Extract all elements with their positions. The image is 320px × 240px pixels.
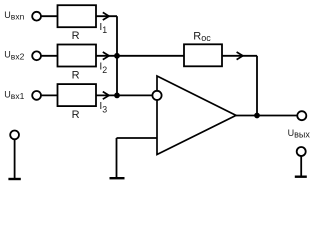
inverting input bubble [152, 91, 161, 100]
resistor R (row 1) [58, 5, 97, 27]
wire down to ground [116, 138, 118, 178]
ground terminal left: wire [14, 140, 16, 178]
wire to inverting input [117, 94, 153, 96]
junction node row2 [114, 53, 120, 59]
ground terminal left: bar [8, 178, 20, 180]
ground terminal right: bar [295, 175, 307, 177]
resistor R (row 2) [58, 45, 97, 67]
output wire [236, 115, 297, 117]
wire [41, 55, 57, 57]
arrowhead I2 [103, 52, 109, 60]
wire with arrow I2 [96, 55, 117, 57]
resistor Roc [184, 44, 222, 66]
junction node row3 [114, 93, 120, 99]
output terminal [297, 111, 306, 120]
feedback wire to Roc [117, 55, 184, 57]
op-amp U1 triangle [157, 76, 236, 155]
bus vertical wire [116, 16, 118, 95]
svg-text:R: R [72, 109, 80, 121]
junction node output [254, 113, 260, 119]
svg-text:Rос: Rос [193, 30, 211, 43]
arrowhead I3 [103, 92, 109, 100]
svg-text:Uвх2: Uвх2 [4, 50, 24, 62]
arrowhead feedback [237, 52, 243, 60]
wire [41, 15, 57, 17]
ground terminal left: circle [10, 131, 19, 140]
non-inverting input wire [117, 137, 158, 139]
svg-text:R: R [72, 70, 80, 82]
wire [41, 94, 57, 96]
arrowhead I1 [103, 12, 109, 20]
wire with arrow I1 [96, 15, 117, 17]
terminal input n [32, 12, 41, 21]
resistor R (row 3) [58, 84, 97, 106]
ground terminal right: circle [297, 147, 306, 156]
svg-text:R: R [72, 30, 80, 42]
svg-text:Uвхn: Uвхn [4, 10, 24, 22]
terminal input 2 [32, 51, 41, 60]
feedback vertical wire [256, 56, 258, 116]
svg-text:Uвх1: Uвх1 [4, 90, 24, 102]
wire with arrow I3 [96, 94, 117, 96]
terminal input 1 [32, 91, 41, 100]
ground terminal right: wire [300, 156, 302, 176]
ground bar (center) [110, 177, 125, 179]
wire after Roc [222, 55, 257, 57]
